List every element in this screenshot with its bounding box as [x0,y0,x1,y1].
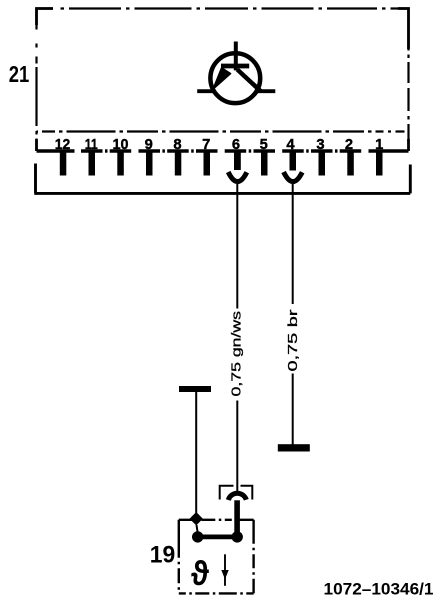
svg-text:0,75 gn/ws: 0,75 gn/ws [229,310,244,396]
svg-text:19: 19 [150,542,176,569]
svg-text:1072–10346/1: 1072–10346/1 [324,581,434,599]
svg-text:1: 1 [375,136,383,153]
svg-text:11: 11 [85,136,98,153]
svg-text:6: 6 [232,136,240,153]
svg-text:9: 9 [145,136,153,153]
svg-text:21: 21 [9,61,30,87]
svg-text:ϑ: ϑ [191,555,209,593]
svg-text:10: 10 [113,136,129,153]
svg-text:5: 5 [260,136,268,153]
svg-text:8: 8 [173,136,181,153]
svg-text:7: 7 [202,136,210,153]
svg-text:3: 3 [316,136,324,153]
svg-text:2: 2 [345,136,353,153]
svg-text:0,75 br: 0,75 br [285,308,300,371]
svg-text:4: 4 [286,136,295,153]
svg-text:12: 12 [55,136,71,153]
